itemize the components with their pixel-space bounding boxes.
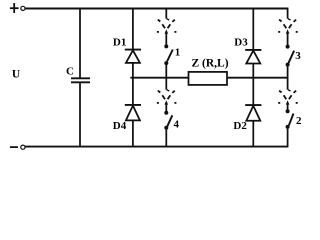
svg-text:U: U	[12, 69, 21, 81]
diode D4	[125, 105, 141, 121]
svg-text:3: 3	[295, 50, 301, 62]
wire diode D1 branch from top rail	[132, 9, 134, 50]
negative terminal circle	[21, 145, 25, 149]
wire diode D2 branch from mid node	[252, 78, 254, 106]
capacitor C	[71, 78, 90, 82]
svg-text:2: 2	[296, 115, 302, 127]
svg-text:D4: D4	[113, 120, 127, 132]
positive terminal plus sign	[10, 3, 19, 13]
switch 3 (controlled switch)	[278, 9, 298, 79]
negative terminal minus sign	[10, 146, 18, 148]
diode D2	[245, 105, 261, 121]
switch 1 (controlled switch)	[157, 9, 177, 79]
load impedance Z box	[189, 72, 228, 85]
wire diode D3 branch from top rail	[252, 9, 254, 51]
wire bottom rail	[25, 146, 288, 148]
wire diode D1 to mid node A	[132, 63, 134, 79]
svg-text:1: 1	[175, 46, 181, 58]
wire middle left (node A to load)	[130, 77, 188, 79]
wire diode D2 to bottom rail	[252, 121, 254, 147]
wire middle right (load to node B)	[227, 77, 288, 79]
svg-text:D3: D3	[234, 37, 248, 49]
wire capacitor branch lower	[79, 83, 81, 147]
svg-text:4: 4	[174, 119, 180, 131]
svg-text:C: C	[66, 66, 74, 78]
wire diode D4 branch from mid node	[132, 78, 134, 106]
wire capacitor branch upper	[79, 9, 81, 78]
switch 4 (controlled switch)	[157, 78, 177, 147]
diode D1	[125, 50, 141, 63]
svg-text:D2: D2	[233, 120, 247, 132]
switch 2 (controlled switch)	[278, 78, 298, 147]
wire diode D4 to bottom rail	[132, 120, 134, 146]
wire diode D3 to mid node B	[252, 64, 254, 79]
positive terminal circle	[21, 6, 25, 10]
wire top rail	[25, 8, 288, 10]
svg-text:Z (R,L): Z (R,L)	[192, 57, 229, 69]
diode D3	[245, 50, 261, 64]
svg-text:D1: D1	[113, 36, 126, 48]
